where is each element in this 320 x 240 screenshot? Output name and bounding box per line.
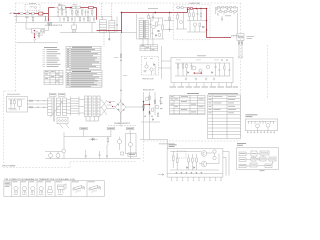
switch SW601 contact a — [58, 6, 61, 9]
wire — [187, 21, 206, 33]
photocoupler IC601 — [72, 22, 77, 33]
capacitor C611 — [120, 89, 122, 92]
wire drops from labels — [84, 130, 131, 137]
resistor network top right corner — [216, 7, 238, 16]
wire — [79, 100, 85, 114]
block: IF amp — [251, 151, 257, 156]
node junction dot — [18, 13, 20, 15]
diode D604 — [187, 8, 189, 10]
connector CN601 — [237, 34, 244, 41]
svg-text:POWER SUPPLY: POWER SUPPLY — [114, 123, 131, 125]
transistor package TO92 c — [29, 182, 35, 194]
resistor R607 — [91, 8, 93, 16]
capacitor C613 — [221, 59, 223, 62]
fuse F604 — [30, 100, 33, 101]
transistor Q2 — [201, 161, 207, 167]
transistor Q611 — [155, 105, 159, 109]
label smudge T601 — [139, 17, 145, 20]
wire red to choke — [93, 8, 96, 20]
block interconnect wires — [246, 154, 273, 166]
label IC1001 — [169, 144, 177, 147]
transistor Q4 — [213, 156, 216, 159]
wire drops — [17, 14, 33, 23]
wire drops from filter stacks — [86, 117, 99, 122]
transistor Q609 — [49, 154, 53, 158]
diode D1 — [187, 167, 189, 169]
wire — [119, 137, 121, 150]
wire — [55, 7, 59, 9]
resistor R604 — [61, 8, 63, 16]
capacitor C627 — [229, 63, 231, 76]
pin label smudges — [247, 131, 275, 134]
fuse F605 — [30, 107, 33, 108]
parts table right — [208, 93, 241, 138]
wire red top run — [49, 7, 55, 9]
IC package SIP b — [88, 182, 101, 193]
wire red choke link — [97, 30, 122, 32]
zener D612 — [121, 152, 124, 155]
capacitor C623 — [93, 16, 95, 22]
wire left branch — [63, 132, 65, 149]
label smudges in box — [176, 59, 181, 62]
block: audio — [250, 163, 257, 167]
ground — [44, 19, 46, 22]
mixer circle — [258, 158, 260, 160]
wire stubs out bottom — [174, 83, 232, 87]
resistor R629 — [120, 54, 122, 57]
wire links transformer to power unit — [164, 21, 174, 30]
wire stub — [91, 22, 93, 33]
pin connection outer box — [4, 181, 104, 197]
capacitor C625 — [191, 63, 193, 70]
wire — [45, 20, 49, 30]
capacitor C621 — [71, 16, 73, 22]
wire red links — [144, 102, 150, 111]
wire — [107, 102, 115, 109]
resistor R615 — [177, 13, 179, 29]
wire: internal bottom rail — [175, 75, 230, 77]
wire: bottom rail — [17, 22, 97, 24]
section divider dashed — [111, 3, 113, 20]
wire — [45, 152, 62, 159]
resistor R611 — [189, 9, 191, 21]
relay RL601 contact b — [77, 6, 81, 9]
wire: AC neutral — [14, 16, 49, 18]
wire pin ticks — [249, 121, 274, 124]
thermistor TH601 — [39, 12, 43, 15]
resistor R612 — [193, 9, 195, 21]
transistor package TO220 — [56, 182, 66, 194]
resistor R610 — [162, 25, 164, 30]
capacitor C603 — [65, 8, 67, 16]
wire — [34, 13, 38, 15]
transistor Q3 — [213, 150, 216, 153]
wire — [176, 7, 187, 9]
resistor R3 — [188, 154, 190, 170]
boxed label T602a — [50, 93, 57, 96]
transformer T602 primary winding — [48, 98, 52, 116]
regulator circuit cluster — [141, 92, 160, 122]
label smudge AC outlet — [247, 35, 255, 38]
svg-text:REGULATOR: REGULATOR — [143, 89, 155, 92]
section divider dashed — [102, 3, 104, 47]
protector circuit box — [141, 57, 158, 76]
ground — [205, 78, 207, 80]
diode D603 — [181, 7, 183, 9]
row label smudges — [160, 96, 163, 99]
resistor R630 — [38, 32, 40, 38]
block: output — [265, 164, 272, 168]
transistor Q603 — [180, 21, 183, 24]
node dot — [169, 12, 171, 14]
resistor R622 — [87, 16, 89, 22]
bias network dashed box — [177, 151, 186, 158]
wire — [17, 13, 26, 15]
capacitor C602 — [57, 8, 59, 16]
IC1001 internal schematic box — [167, 149, 223, 178]
resistor R624 — [32, 16, 34, 22]
diode D602 — [177, 7, 179, 9]
capacitor C619 — [152, 29, 154, 39]
diode D611 — [89, 138, 98, 141]
parts table left — [170, 93, 205, 115]
wire to selector — [26, 23, 32, 30]
arrow marker — [50, 102, 63, 118]
snubber resistor R608 — [148, 13, 150, 19]
wire: internal top rail — [175, 62, 230, 64]
boxed label 5V — [126, 127, 134, 129]
filter stack L606 — [85, 96, 88, 117]
node dot — [121, 12, 123, 14]
label smudges — [60, 8, 63, 11]
wire: section bottom — [17, 42, 59, 44]
voltage selector box SW602 — [32, 29, 45, 34]
capacitor C608 — [150, 23, 152, 26]
wire red stub — [45, 16, 47, 20]
inductor L601 (dashed box) — [25, 3, 40, 12]
resistor R613 — [200, 9, 202, 21]
diode row — [176, 172, 202, 174]
transistor Q610 — [56, 154, 60, 158]
wire red drop — [207, 9, 232, 38]
pin stubs below — [248, 131, 274, 132]
resistor R605 — [71, 9, 73, 16]
diode D614 — [153, 119, 155, 121]
wire: lower rail — [60, 32, 137, 34]
transistor Q602 — [193, 23, 196, 26]
resistor R2 — [176, 153, 178, 170]
label smudges — [150, 20, 154, 23]
label smudges — [58, 3, 63, 6]
transistor Q605 — [199, 69, 202, 72]
resistor R606 — [81, 9, 83, 16]
transistor Q604 — [192, 66, 196, 70]
IC package SIP a — [72, 182, 85, 193]
transistor package TO92 d — [38, 182, 44, 194]
wire: secondary outputs — [67, 100, 71, 114]
label smudge — [225, 14, 231, 17]
resistor R618 — [107, 137, 109, 145]
block diagram outer box — [237, 148, 279, 170]
resistor R601 — [26, 12, 29, 14]
capacitor C615 — [85, 150, 87, 159]
label block diagram — [237, 143, 246, 146]
wire: internal top rail — [248, 120, 276, 122]
resistor R628 — [169, 17, 171, 20]
wire stub up — [59, 3, 61, 6]
pin number smudges — [171, 179, 222, 182]
diode D613 — [155, 35, 156, 37]
wire red link — [194, 72, 201, 74]
capacitor C609 — [197, 9, 199, 21]
wire — [136, 14, 138, 39]
resistor R616 — [177, 63, 179, 76]
AC interlock box — [6, 97, 27, 113]
transistor package TO92 a — [13, 182, 19, 194]
wire — [130, 153, 132, 159]
wire — [160, 46, 162, 79]
arrow symbol — [158, 174, 164, 176]
capacitor C604 — [77, 9, 79, 16]
posistor R603 — [89, 6, 94, 8]
resistor R4 — [192, 154, 194, 170]
wire red selector drop — [34, 33, 36, 38]
diode package a — [46, 182, 53, 193]
node dot — [48, 20, 49, 21]
node dot — [154, 12, 156, 14]
label smudge — [197, 55, 206, 56]
diode bridge D609 (diamond) — [115, 102, 126, 113]
boxed label standby — [128, 153, 136, 156]
node dots — [43, 100, 44, 101]
resistor R627 — [224, 63, 226, 76]
power unit dashed outline — [174, 5, 211, 40]
wire — [159, 61, 171, 68]
transformer T601 core — [144, 20, 145, 39]
resistor R602 — [32, 12, 35, 14]
text smudge — [159, 142, 175, 145]
node dots — [196, 8, 198, 10]
block: AGC — [239, 164, 246, 168]
wire — [176, 13, 187, 29]
relay RL601 contact a — [72, 6, 76, 9]
block: V drive — [269, 157, 276, 161]
diode D606 — [203, 26, 205, 28]
label smudge AC interlock — [7, 93, 20, 96]
ground — [185, 78, 187, 80]
wire red — [65, 7, 72, 9]
capacitor C620 — [63, 16, 65, 22]
transistor Q606 — [206, 65, 209, 68]
wire — [148, 18, 163, 38]
svg-text:PIN CONNECTION DIAGRAM OF TRAN: PIN CONNECTION DIAGRAM OF TRANSISTORS, D… — [5, 178, 76, 181]
voltage table small — [44, 71, 63, 85]
node dots regulator — [143, 101, 144, 102]
block: video — [251, 157, 256, 161]
diode D2 — [194, 167, 196, 169]
dashed separator — [108, 125, 136, 127]
regulator sub box — [125, 134, 136, 154]
transistor Q601 — [152, 25, 156, 29]
fuse F603 — [241, 41, 243, 59]
wire: supply rail — [64, 136, 111, 138]
wire to IC area — [140, 139, 168, 141]
ground — [213, 78, 215, 80]
wire stubs to lower section — [143, 39, 153, 46]
capacitor C614 — [226, 59, 228, 62]
capacitor C616 — [106, 145, 108, 159]
wire: transformer bottom rail — [137, 38, 165, 40]
resistor R621 — [79, 16, 81, 22]
node dots red — [109, 102, 110, 103]
transistor Q1 — [201, 151, 207, 157]
wire: bottom supply rail — [45, 158, 141, 160]
voltage annotation row — [170, 86, 239, 89]
wire: long vertical feed — [120, 33, 122, 127]
twisted pair crossover — [100, 100, 107, 115]
filter stack L607 — [89, 96, 92, 117]
capacitor C630 — [160, 97, 162, 105]
node dots on rail — [58, 16, 59, 17]
svg-text:PROTECTOR: PROTECTOR — [142, 79, 154, 81]
transistor Q607 — [62, 149, 66, 153]
regulator block box — [171, 57, 233, 82]
filter stack L609 — [97, 96, 100, 117]
capacitor C618 — [38, 100, 39, 108]
label: L.DRIVE — [148, 7, 158, 10]
block label smudges — [240, 153, 275, 166]
capacitor C610 — [120, 59, 122, 62]
svg-text:VOLTAGE SELECTOR: VOLTAGE SELECTOR — [45, 24, 63, 27]
choke ladder L605 — [71, 97, 80, 116]
wire: red B+ run — [122, 12, 188, 14]
connector CN602 — [57, 118, 69, 129]
resistor R620 — [67, 16, 69, 22]
transformer T601 secondary — [145, 20, 148, 38]
diode D608 — [212, 72, 214, 74]
boxed label 12V — [107, 127, 115, 129]
relay box K601 — [48, 22, 52, 24]
capacitor C605 — [87, 9, 89, 16]
transistor package TO92 b — [21, 182, 27, 194]
IC1002 pin diagram box — [245, 119, 277, 131]
ground — [195, 78, 197, 80]
resistor R614 — [199, 23, 201, 27]
capacitor C629 — [221, 16, 223, 22]
line filter choke L603 — [109, 16, 115, 33]
capacitor C628 — [169, 27, 171, 32]
label smudge below — [260, 169, 265, 172]
notes table B — [66, 46, 101, 69]
wire red — [80, 7, 88, 9]
fuse F601 — [20, 13, 24, 15]
line filter choke L602 — [99, 16, 106, 33]
resistor R631 — [152, 108, 154, 111]
transistor Q608 — [117, 139, 121, 143]
wire — [43, 8, 49, 21]
capacitor C606 — [116, 16, 118, 33]
wire branch down — [169, 13, 171, 28]
switch contact marks — [33, 35, 36, 43]
transformer T602 core — [54, 97, 55, 122]
wire — [29, 13, 32, 15]
wire — [159, 18, 163, 39]
capacitor C617 — [99, 151, 101, 159]
wire stubs lower — [60, 16, 90, 22]
pin name smudges — [14, 193, 64, 196]
voltage check table — [140, 45, 158, 51]
cell dividers — [12, 181, 87, 197]
diode D601 — [158, 30, 160, 32]
transformer T602 secondary winding 2 — [62, 98, 66, 116]
wire: IC output routing — [223, 152, 229, 176]
resistor R623 — [75, 9, 77, 16]
boxed label T602b — [59, 93, 66, 96]
block: detector — [239, 158, 246, 161]
label smudge — [114, 56, 119, 59]
wire — [63, 153, 65, 159]
resistor R5 — [196, 154, 198, 170]
snubber capacitor C607 — [152, 13, 154, 20]
capacitor C601 — [25, 16, 28, 22]
wire drops to bus — [144, 122, 150, 140]
transformer T602 secondary winding — [56, 98, 60, 116]
resistor R626 — [186, 63, 188, 76]
resistor R617 — [182, 63, 184, 76]
block: H drive — [260, 157, 266, 161]
symbol legend list — [43, 47, 61, 67]
resistor R632 — [157, 113, 159, 116]
wire: mid rail — [49, 16, 113, 18]
wire: internal links — [170, 152, 219, 171]
degauss coil L604 — [231, 35, 239, 36]
wire: bottom rail + pins — [167, 173, 223, 175]
wire: red riser — [121, 13, 123, 34]
node dots on riser — [206, 20, 207, 21]
node dots — [194, 72, 195, 73]
diode D607 — [188, 72, 190, 74]
diode D605 — [190, 8, 192, 10]
resistor R1 — [172, 151, 174, 168]
node dot — [70, 7, 72, 9]
transistor QA — [255, 121, 260, 130]
node dot — [34, 37, 35, 38]
capacitor C626 — [219, 63, 221, 76]
wire — [237, 13, 239, 33]
switch SW601 contact b — [62, 6, 65, 9]
wire into IC box — [167, 140, 169, 149]
schematic frame (dashed border) — [4, 3, 268, 168]
svg-text:1 P.S POWER: 1 P.S POWER — [2, 165, 16, 167]
transformer T601 primary — [139, 20, 143, 38]
resistor R609 — [156, 22, 158, 26]
capacitor C612 — [215, 63, 217, 76]
wire red step-up — [187, 9, 189, 13]
resistor R625 — [159, 34, 161, 37]
label smudge — [38, 34, 44, 37]
transistor QB — [266, 121, 271, 130]
wire: mains to transformer — [27, 101, 47, 107]
capacitor C624 — [85, 9, 87, 16]
wire — [113, 99, 144, 122]
fuse F602 — [238, 41, 240, 59]
notes table C — [66, 71, 102, 88]
filter stack L608 — [93, 96, 96, 117]
wire red — [193, 8, 207, 10]
block: input stage — [239, 152, 246, 156]
wire: AC live input — [14, 13, 17, 15]
wire — [187, 20, 206, 22]
